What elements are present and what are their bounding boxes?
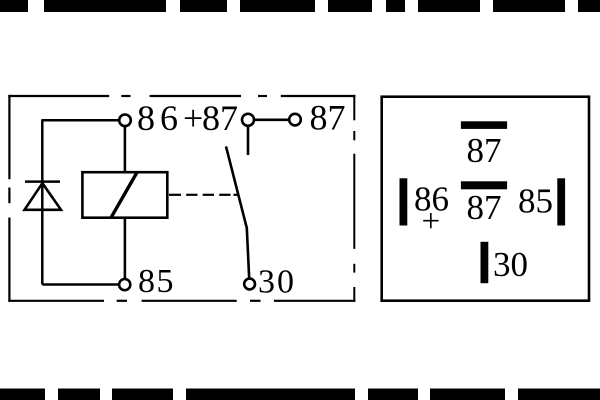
svg-text:30: 30 [258,263,296,300]
switch blade [226,146,249,278]
pin pad 87 (middle) [461,181,507,189]
pin pad 85 (right) [557,178,565,225]
svg-text:86+: 86+ [137,98,208,138]
left enclosure border left edge [8,95,10,302]
wire: stub below common circle [247,126,250,155]
pin pad 87 (top) [461,121,507,129]
svg-text:87: 87 [467,131,502,170]
svg-text:87: 87 [310,98,346,138]
mechanical link dashed line [169,194,238,196]
watermark bar top [0,0,600,12]
switch common terminal circle (87a pivot) [242,114,254,126]
diode D1 triangle [25,183,62,210]
wire: 86+ circle down to coil [124,127,127,173]
svg-text:+: + [422,204,441,240]
svg-text:85: 85 [518,181,553,220]
pinout box border [382,97,589,301]
wire: 86+ circle to left rail (top) [42,119,119,122]
wire: left rail vertical [41,119,44,284]
terminal circle 85 [119,279,130,290]
wire: common circle to 87 output circle [254,119,289,122]
watermark bar bottom [0,389,600,400]
left enclosure dash-dot border top edge [8,95,355,97]
svg-text:87: 87 [202,98,238,138]
terminal circle 86+ [119,115,131,127]
terminal circle 30 [244,279,255,290]
wire: left rail to 85 circle (bottom) [42,283,119,286]
left enclosure border right edge [353,95,355,302]
relay coil K1 diagonal [111,172,137,217]
svg-text:87: 87 [467,188,502,227]
diode D1 cathode bar [25,180,60,183]
relay coil K1 body [82,172,167,218]
svg-text:85: 85 [138,263,175,300]
pin pad 30 (bottom) [481,242,489,283]
terminal circle 87 (right) [289,114,301,126]
left enclosure border bottom edge [8,300,355,302]
pin pad 86 (left) [400,178,408,225]
wire: coil down to 85 circle [124,218,127,279]
svg-text:30: 30 [493,245,528,284]
